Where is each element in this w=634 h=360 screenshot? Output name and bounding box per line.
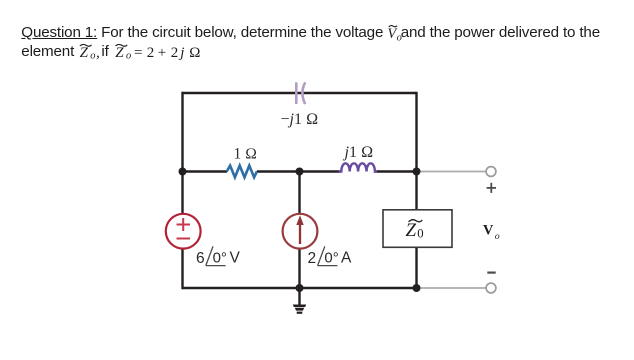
wire: right rail (415, 92, 417, 289)
svg-text:o: o (90, 50, 95, 61)
output voltage label Vo (483, 223, 500, 242)
wire: bottom horizontal (183, 287, 417, 289)
svg-text:Ω: Ω (189, 45, 200, 61)
svg-text:0°: 0° (324, 249, 338, 266)
wire: top horizontal (183, 92, 417, 94)
ground symbol (293, 288, 306, 314)
question text line 2 words (21, 43, 74, 60)
wire: middle branch lower (298, 249, 300, 289)
inline math Z~o (first) in line 2 (80, 45, 100, 62)
junction node: right rail / middle wire (413, 168, 421, 176)
junction node: middle branch / bottom wire (296, 284, 304, 292)
svg-text:Z: Z (80, 45, 89, 61)
impedance box Z0 label (406, 220, 424, 241)
junction node: left rail / middle wire (179, 168, 187, 176)
voltage source V1 label 6/0 deg V (196, 246, 241, 267)
svg-text:6: 6 (196, 250, 205, 267)
svg-text:o: o (126, 50, 131, 61)
svg-text:2: 2 (171, 45, 179, 61)
capacitor value label -j1 ohm (281, 111, 319, 128)
svg-text:1 Ω: 1 Ω (234, 145, 258, 162)
current source I1 label 2/0 deg A (308, 246, 353, 267)
svg-text:2: 2 (147, 45, 155, 61)
current source I1 circle (283, 214, 318, 249)
wire: middle branch upper (298, 172, 300, 215)
inductor L1 coil (339, 163, 377, 171)
wire: left rail upper (181, 92, 183, 214)
wire: gray output lead bottom (417, 287, 487, 289)
svg-text:+: + (158, 45, 166, 61)
svg-text:V: V (230, 250, 241, 267)
output terminal top (open circle) (486, 167, 496, 177)
inline math equation = 2 + 2j ohm in line 2 (134, 45, 200, 61)
inline math Z~o (second) in line 2 (115, 45, 131, 62)
current source I1 arrow (296, 215, 303, 244)
resistor R1 zigzag (227, 166, 257, 178)
capacitor C1 left plate (295, 82, 298, 104)
voltage source V1 plus sign (177, 218, 191, 231)
inductor value label j1 ohm (343, 144, 374, 161)
junction node: right rail / bottom wire (413, 284, 421, 292)
question text line 1 (21, 25, 631, 40)
impedance box Z0 (383, 210, 452, 248)
wire: left rail lower (181, 249, 183, 290)
inline math V~o in line 1 (387, 26, 401, 44)
wire: gray output lead top (417, 171, 487, 173)
svg-text:V: V (483, 223, 494, 239)
svg-text:Z: Z (115, 45, 124, 61)
svg-text:0: 0 (417, 227, 423, 241)
wire: middle horizontal left of resistor (183, 170, 228, 172)
minus polarity label (487, 272, 495, 274)
svg-text:j: j (178, 45, 184, 61)
svg-text:2: 2 (308, 250, 317, 267)
svg-text:,: , (96, 45, 100, 61)
svg-text:j1 Ω: j1 Ω (343, 144, 374, 161)
svg-text:A: A (341, 250, 352, 267)
svg-text:−j1 Ω: −j1 Ω (281, 111, 319, 128)
svg-text:0°: 0° (213, 249, 227, 266)
wire: middle horizontal between resistor and inductor (257, 170, 341, 172)
svg-text:o: o (397, 32, 402, 43)
voltage source V1 minus sign (177, 238, 191, 240)
resistor value label 1 ohm (234, 145, 258, 162)
svg-text:Z: Z (406, 220, 417, 241)
capacitor C1 right plate (curved) (302, 82, 305, 104)
svg-text:o: o (495, 231, 500, 242)
wire: middle horizontal right of inductor (375, 170, 417, 172)
output terminal bottom (open circle) (486, 283, 496, 293)
svg-text:=: = (134, 45, 142, 61)
voltage source V1 circle (166, 214, 201, 249)
junction node: middle branch / middle wire (296, 168, 304, 176)
plus polarity label (487, 183, 496, 193)
